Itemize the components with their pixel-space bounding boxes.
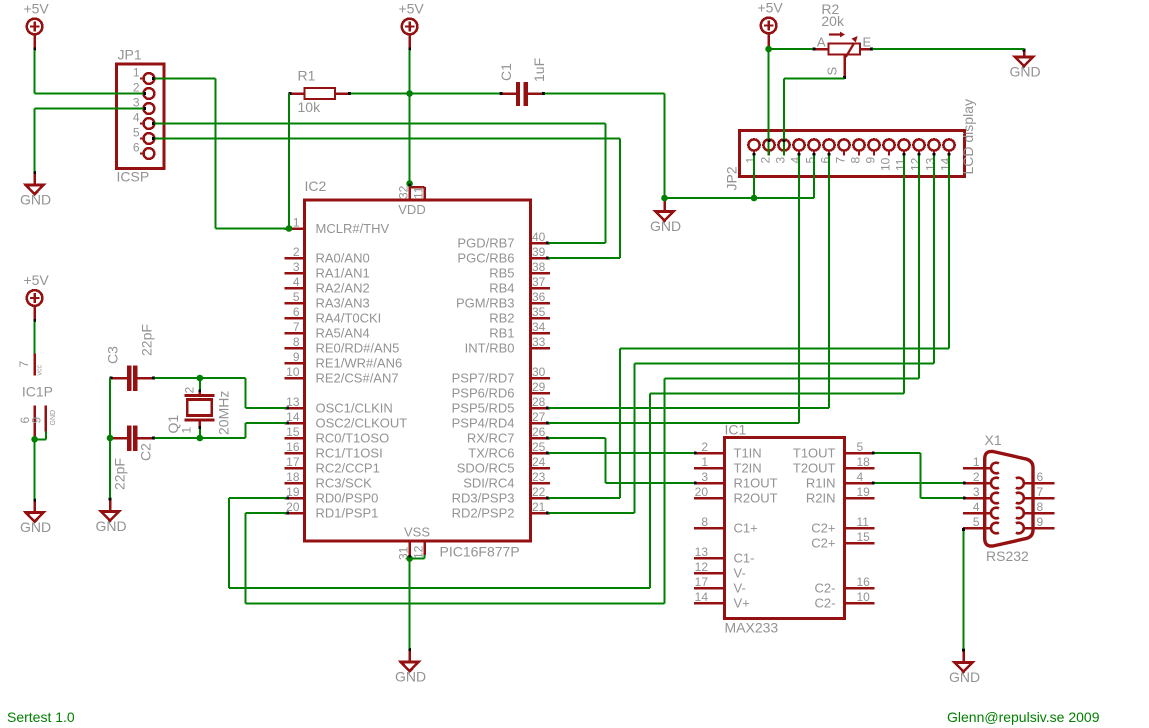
svg-text:27: 27 [532, 410, 546, 424]
wire [549, 257, 620, 259]
wire [549, 437, 606, 439]
wire [154, 138, 620, 140]
svg-text:29: 29 [532, 380, 546, 394]
svg-text:Glenn@repulsiv.se 2009: Glenn@repulsiv.se 2009 [947, 709, 1100, 725]
svg-text:SDO/RC5: SDO/RC5 [457, 461, 515, 476]
svg-text:17: 17 [286, 455, 300, 469]
svg-text:5: 5 [133, 126, 140, 140]
wire [34, 50, 36, 94]
svg-text:9: 9 [1037, 515, 1044, 529]
svg-text:28: 28 [532, 395, 546, 409]
svg-text:6: 6 [133, 141, 140, 155]
wire [920, 453, 922, 498]
svg-text:1: 1 [744, 157, 758, 164]
crystal Q1 20MHz [165, 387, 232, 436]
wire [605, 438, 607, 483]
svg-text:T1IN: T1IN [734, 446, 762, 461]
wire [828, 156, 830, 409]
svg-text:RX/RC7: RX/RC7 [467, 431, 515, 446]
wire [34, 322, 36, 354]
capacitor C3 22pF [105, 324, 155, 391]
junction [406, 555, 413, 562]
svg-text:10: 10 [879, 157, 893, 171]
svg-text:1: 1 [973, 455, 980, 469]
wire [35, 93, 144, 95]
svg-text:C2+: C2+ [811, 521, 835, 536]
svg-text:GND: GND [50, 410, 57, 426]
svg-text:8: 8 [701, 515, 708, 529]
+5V supply IC1P [23, 272, 49, 322]
svg-text:14: 14 [939, 157, 953, 171]
svg-text:SDI/RC4: SDI/RC4 [463, 476, 514, 491]
svg-text:TX/RC6: TX/RC6 [468, 446, 514, 461]
svg-text:VSS: VSS [404, 525, 430, 540]
svg-text:12: 12 [412, 545, 426, 559]
svg-text:vcc: vcc [37, 365, 44, 376]
svg-text:6: 6 [1037, 470, 1044, 484]
wire [619, 349, 621, 499]
svg-text:OSC2/CLKOUT: OSC2/CLKOUT [316, 416, 408, 431]
svg-text:10: 10 [857, 590, 871, 604]
svg-text:RD0/PSP0: RD0/PSP0 [316, 491, 379, 506]
svg-text:PSP4/RD4: PSP4/RD4 [452, 416, 515, 431]
svg-text:A: A [817, 35, 826, 50]
svg-text:3: 3 [973, 485, 980, 499]
svg-text:21: 21 [532, 500, 546, 514]
svg-text:7: 7 [17, 361, 31, 368]
svg-text:8: 8 [849, 157, 863, 164]
svg-text:4: 4 [293, 275, 300, 289]
svg-text:GND: GND [20, 192, 51, 208]
wire [549, 242, 606, 244]
svg-text:GND: GND [395, 669, 426, 685]
svg-text:26: 26 [532, 425, 546, 439]
svg-text:3: 3 [293, 260, 300, 274]
svg-text:C2: C2 [138, 443, 154, 461]
svg-text:C3: C3 [105, 346, 121, 364]
svg-text:10: 10 [286, 365, 300, 379]
wire [288, 94, 290, 229]
svg-text:20k: 20k [821, 13, 845, 29]
junction [197, 375, 204, 382]
ground IC1P [20, 499, 51, 535]
wire [549, 452, 695, 454]
svg-text:V-: V- [734, 581, 746, 596]
svg-text:RC2/CCP1: RC2/CCP1 [316, 461, 380, 476]
wire [34, 109, 36, 172]
IC2 right pins 21-40 [452, 230, 550, 521]
svg-text:RB5: RB5 [489, 266, 514, 281]
wire [664, 94, 666, 199]
svg-text:R2IN: R2IN [806, 491, 836, 506]
svg-text:2: 2 [293, 245, 300, 259]
svg-text:6: 6 [293, 305, 300, 319]
svg-text:R1: R1 [298, 68, 316, 84]
wire [620, 348, 949, 350]
svg-text:LCD display: LCD display [960, 99, 976, 174]
svg-text:4: 4 [857, 470, 864, 484]
wire [549, 512, 635, 514]
MAX233 left pins [694, 440, 778, 611]
svg-text:17: 17 [695, 575, 709, 589]
svg-text:E: E [863, 35, 872, 50]
wire [649, 394, 651, 589]
wire [154, 78, 215, 80]
resistor R1 10k [289, 68, 351, 116]
svg-text:13: 13 [924, 157, 938, 171]
svg-text:R1IN: R1IN [806, 476, 836, 491]
svg-text:38: 38 [532, 260, 546, 274]
svg-text:22: 22 [532, 485, 546, 499]
ground below JP1 area [20, 171, 51, 207]
wire [549, 407, 830, 409]
svg-text:RB2: RB2 [489, 311, 514, 326]
svg-text:16: 16 [286, 440, 300, 454]
junction [406, 180, 413, 187]
svg-text:ICSP: ICSP [117, 169, 150, 185]
svg-text:1: 1 [133, 66, 140, 80]
svg-text:VDD: VDD [398, 202, 425, 217]
wire [963, 528, 965, 649]
svg-text:35: 35 [532, 305, 546, 319]
MAX233 right pins [793, 440, 875, 611]
svg-text:PSP6/RD6: PSP6/RD6 [452, 386, 515, 401]
svg-text:5: 5 [293, 290, 300, 304]
wire [634, 364, 636, 514]
svg-text:16: 16 [857, 575, 871, 589]
wire [948, 156, 950, 349]
svg-text:9: 9 [293, 350, 300, 364]
+5V supply top-left [23, 1, 49, 51]
svg-text:IC1P: IC1P [22, 384, 53, 400]
svg-text:RA4/T0CKI: RA4/T0CKI [316, 311, 382, 326]
svg-text:14: 14 [695, 590, 709, 604]
svg-text:2: 2 [759, 157, 773, 164]
svg-text:MCLR#/THV: MCLR#/THV [316, 221, 390, 236]
svg-text:V+: V+ [734, 596, 750, 611]
svg-text:T2IN: T2IN [734, 461, 762, 476]
svg-text:8: 8 [1037, 500, 1044, 514]
IC1P pins 6/9 GND [18, 406, 57, 440]
wire [245, 378, 247, 408]
wire [921, 497, 963, 499]
svg-text:18: 18 [857, 455, 871, 469]
svg-text:IC2: IC2 [305, 178, 327, 194]
wire [155, 377, 200, 379]
potentiometer R2 20k [813, 1, 873, 79]
junction [31, 436, 38, 443]
svg-text:9: 9 [30, 417, 44, 424]
svg-text:3: 3 [701, 470, 708, 484]
svg-text:1: 1 [293, 216, 300, 230]
wire [409, 559, 411, 649]
junction [661, 195, 668, 202]
wire [351, 93, 410, 95]
svg-text:T1OUT: T1OUT [793, 446, 836, 461]
wire [409, 94, 411, 184]
svg-text:2: 2 [133, 81, 140, 95]
svg-text:C2-: C2- [815, 581, 836, 596]
svg-text:RS232: RS232 [986, 548, 1029, 564]
wire [228, 498, 230, 588]
wire [109, 378, 111, 438]
svg-text:R2OUT: R2OUT [734, 491, 778, 506]
wire [35, 108, 144, 110]
svg-text:25: 25 [532, 440, 546, 454]
svg-text:GND: GND [650, 218, 681, 234]
wire [246, 422, 287, 424]
wire [229, 497, 287, 499]
wire [245, 423, 247, 438]
svg-text:RE2/CS#/AN7: RE2/CS#/AN7 [316, 371, 399, 386]
wire [200, 437, 246, 439]
wire [245, 513, 247, 604]
svg-text:GND: GND [1009, 64, 1040, 80]
svg-text:RD3/PSP3: RD3/PSP3 [452, 491, 515, 506]
svg-text:5: 5 [857, 440, 864, 454]
wire [199, 378, 201, 390]
svg-text:6: 6 [819, 157, 833, 164]
IC2 VDD pins 32/11 [397, 184, 426, 218]
IC1P label [22, 384, 53, 400]
svg-text:1: 1 [180, 427, 194, 434]
svg-text:PGD/RB7: PGD/RB7 [457, 236, 514, 251]
svg-text:JP1: JP1 [118, 47, 142, 63]
wire [200, 377, 246, 379]
svg-text:RB1: RB1 [489, 326, 514, 341]
svg-text:5: 5 [804, 157, 818, 164]
svg-text:+5V: +5V [23, 1, 49, 17]
wire [34, 439, 36, 499]
svg-text:33: 33 [532, 335, 546, 349]
ground C1 / JP2 pin1 [650, 198, 681, 234]
wire [606, 482, 695, 484]
svg-text:20: 20 [695, 485, 709, 499]
svg-text:22pF: 22pF [139, 324, 155, 356]
wire [635, 363, 934, 365]
ground pot R2 E terminal [1009, 49, 1040, 80]
svg-text:PGM/RB3: PGM/RB3 [456, 296, 515, 311]
IC1P pin 7 vcc [17, 354, 44, 376]
pin connection tips [143, 77, 965, 557]
+5V supply near JP2 [757, 0, 783, 49]
wire [229, 587, 650, 589]
svg-text:1uF: 1uF [531, 58, 547, 82]
wire [918, 156, 920, 379]
svg-text:32: 32 [397, 185, 411, 199]
svg-text:7: 7 [1037, 485, 1044, 499]
wire [154, 123, 605, 125]
svg-text:PGC/RB6: PGC/RB6 [457, 251, 514, 266]
wire [109, 438, 111, 498]
svg-text:R1OUT: R1OUT [734, 476, 778, 491]
svg-text:39: 39 [532, 245, 546, 259]
svg-text:RD1/PSP1: RD1/PSP1 [316, 506, 379, 521]
connector JP1 ICSP [117, 47, 165, 185]
svg-text:7: 7 [834, 157, 848, 164]
wire [933, 156, 935, 364]
svg-text:30: 30 [532, 365, 546, 379]
svg-text:RE1/WR#/AN6: RE1/WR#/AN6 [316, 356, 403, 371]
IC2 left pins 1-20 [285, 216, 408, 521]
svg-text:INT/RB0: INT/RB0 [465, 341, 515, 356]
svg-text:10k: 10k [298, 99, 322, 115]
junction [107, 435, 114, 442]
svg-text:RC3/SCK: RC3/SCK [316, 476, 373, 491]
svg-text:19: 19 [857, 485, 871, 499]
svg-text:RC1/T1OSI: RC1/T1OSI [316, 446, 383, 461]
wire [754, 197, 814, 199]
svg-text:RA5/AN4: RA5/AN4 [316, 326, 370, 341]
wire [410, 93, 500, 95]
svg-text:V-: V- [734, 566, 746, 581]
svg-text:2: 2 [973, 470, 980, 484]
svg-text:4: 4 [789, 157, 803, 164]
svg-text:15: 15 [857, 530, 871, 544]
svg-text:36: 36 [532, 290, 546, 304]
wire [155, 437, 200, 439]
svg-text:24: 24 [532, 455, 546, 469]
wire [665, 197, 755, 199]
svg-text:RD2/PSP2: RD2/PSP2 [452, 506, 515, 521]
svg-text:PSP5/RD5: PSP5/RD5 [452, 401, 515, 416]
svg-text:GND: GND [20, 519, 51, 535]
svg-text:MAX233: MAX233 [725, 620, 779, 636]
wire [903, 156, 905, 394]
svg-text:PSP7/RD7: PSP7/RD7 [452, 371, 515, 386]
svg-text:+5V: +5V [23, 272, 49, 288]
svg-text:C1+: C1+ [734, 521, 758, 536]
svg-text:40: 40 [532, 230, 546, 244]
svg-text:12: 12 [695, 560, 709, 574]
IC U1 MAX233 body [724, 422, 844, 636]
svg-text:PIC16F877P: PIC16F877P [440, 544, 520, 560]
wire [784, 78, 845, 80]
svg-text:RA3/AN3: RA3/AN3 [316, 296, 370, 311]
wire [199, 427, 201, 439]
junction [197, 435, 204, 442]
svg-text:OSC1/CLKIN: OSC1/CLKIN [316, 401, 393, 416]
connector JP2 LCD display [724, 99, 977, 190]
svg-text:20MHz: 20MHz [216, 391, 232, 435]
svg-text:X1: X1 [985, 432, 1002, 448]
svg-text:RB4: RB4 [489, 281, 514, 296]
svg-text:8: 8 [293, 335, 300, 349]
svg-text:C1-: C1- [734, 551, 755, 566]
svg-text:7: 7 [293, 320, 300, 334]
wire [545, 93, 665, 95]
svg-text:S: S [825, 67, 840, 76]
wire [875, 452, 921, 454]
svg-text:GND: GND [95, 518, 126, 534]
svg-text:34: 34 [532, 320, 546, 334]
+5V supply top-middle [398, 1, 424, 51]
junction [751, 195, 758, 202]
capacitor C1 1uF [498, 58, 547, 106]
wire [753, 156, 755, 199]
svg-text:12: 12 [909, 157, 923, 171]
svg-text:C1: C1 [498, 63, 514, 81]
svg-text:C2-: C2- [815, 596, 836, 611]
svg-text:23: 23 [532, 470, 546, 484]
wire [768, 49, 770, 156]
wire [619, 139, 621, 259]
svg-text:GND: GND [949, 669, 980, 685]
svg-text:15: 15 [286, 425, 300, 439]
wire [605, 124, 607, 244]
svg-text:37: 37 [532, 275, 546, 289]
wire [664, 379, 666, 604]
wire [246, 512, 287, 514]
wire [813, 156, 815, 199]
ground VSS of IC2 [395, 648, 426, 684]
IC2 VSS pins 31/12 [397, 525, 431, 561]
svg-text:5: 5 [973, 515, 980, 529]
svg-text:4: 4 [973, 500, 980, 514]
svg-text:11: 11 [412, 186, 426, 199]
svg-text:JP2: JP2 [724, 166, 740, 190]
svg-text:11: 11 [894, 158, 908, 171]
junction [406, 90, 413, 97]
IC U2 PIC16F877P body [305, 178, 531, 560]
junction [765, 46, 772, 53]
svg-text:9: 9 [864, 157, 878, 164]
svg-text:RE0/RD#/AN5: RE0/RD#/AN5 [316, 341, 400, 356]
wire [549, 497, 620, 499]
svg-text:2: 2 [701, 440, 708, 454]
svg-text:Sertest 1.0: Sertest 1.0 [7, 709, 75, 725]
svg-text:4: 4 [133, 111, 140, 125]
wire [215, 79, 217, 229]
svg-text:Q1: Q1 [165, 415, 181, 434]
ground crystal caps [95, 498, 126, 534]
wire [650, 393, 904, 395]
svg-text:3: 3 [133, 96, 140, 110]
wire [798, 156, 800, 424]
svg-text:RC0/T1OSO: RC0/T1OSO [316, 431, 390, 446]
svg-text:C2+: C2+ [811, 536, 835, 551]
svg-text:RA1/AN1: RA1/AN1 [316, 266, 370, 281]
svg-text:2: 2 [183, 387, 197, 394]
svg-text:22pF: 22pF [112, 458, 128, 490]
wire [549, 422, 800, 424]
svg-text:RA2/AN2: RA2/AN2 [316, 281, 370, 296]
svg-text:13: 13 [695, 545, 709, 559]
wire [783, 79, 785, 156]
wire [665, 378, 920, 380]
svg-text:3: 3 [774, 157, 788, 164]
wire [875, 482, 963, 484]
wire [409, 50, 411, 94]
svg-text:18: 18 [286, 470, 300, 484]
ground X1 pin5 [949, 649, 980, 685]
wire [216, 228, 290, 230]
wire [246, 603, 665, 605]
svg-text:RA0/AN0: RA0/AN0 [316, 251, 370, 266]
svg-text:+5V: +5V [398, 1, 424, 17]
junction [286, 225, 293, 232]
svg-text:+5V: +5V [757, 0, 783, 16]
svg-text:11: 11 [857, 515, 870, 529]
wire [872, 48, 1024, 50]
capacitor C2 22pF [110, 426, 155, 491]
svg-text:T2OUT: T2OUT [793, 461, 836, 476]
wire [769, 48, 813, 50]
svg-text:1: 1 [701, 455, 708, 469]
connector X1 RS232 DB9 [963, 432, 1055, 564]
wire [246, 407, 287, 409]
